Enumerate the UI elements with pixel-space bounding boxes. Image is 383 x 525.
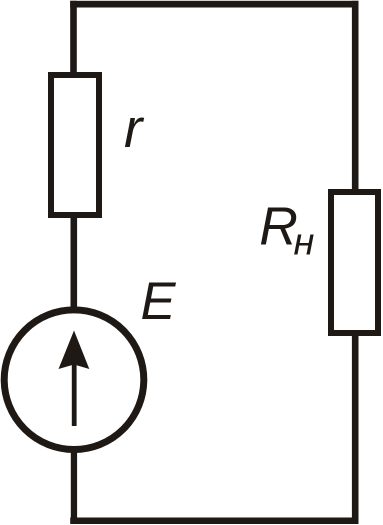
svg-text:r: r <box>124 97 145 159</box>
wire left upper (top wire to resistor r) <box>70 1 77 73</box>
EMF source E circle <box>4 310 144 450</box>
resistor r <box>51 75 99 215</box>
wire top <box>70 1 358 8</box>
arrow shaft <box>72 364 77 426</box>
resistor RH <box>331 192 378 333</box>
wire bottom <box>70 518 358 525</box>
wire left lower (EMF source to bottom wire) <box>71 451 77 524</box>
wire right upper (top wire to resistor RH) <box>352 1 359 191</box>
arrow head of source current direction <box>59 331 90 370</box>
wire right lower (resistor RH to bottom wire) <box>352 336 359 524</box>
svg-text:н: н <box>294 222 315 264</box>
svg-text:R: R <box>259 198 298 257</box>
svg-text:E: E <box>141 272 177 331</box>
wire left middle (resistor r to EMF source) <box>71 218 78 311</box>
